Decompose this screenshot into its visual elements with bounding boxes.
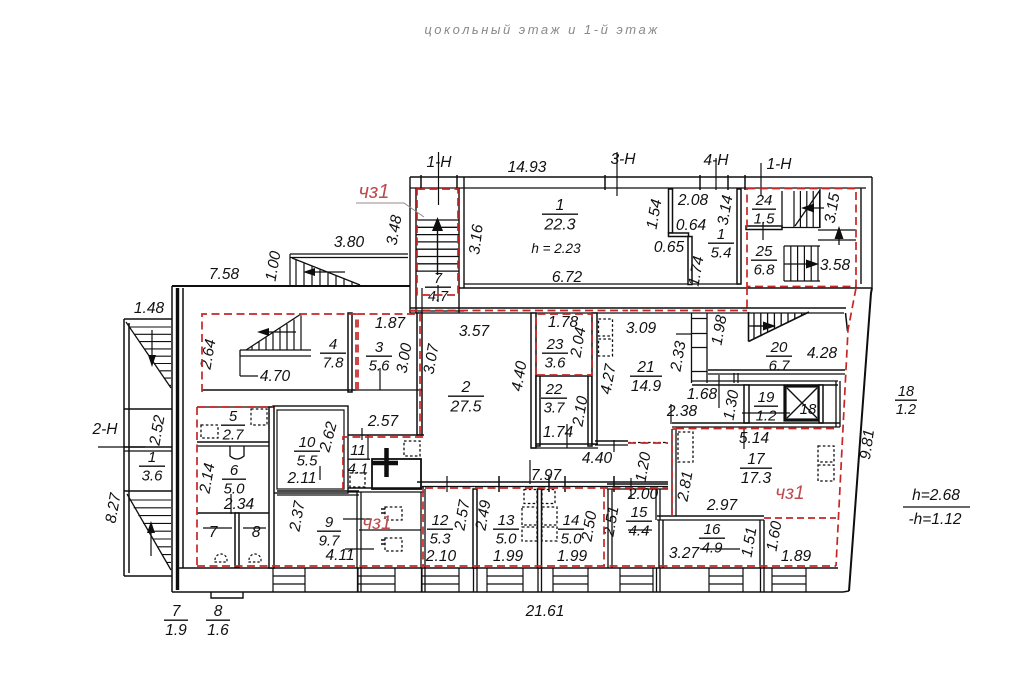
svg-text:2.11: 2.11 (286, 470, 316, 487)
svg-text:14.93: 14.93 (508, 159, 547, 176)
elevator 18 shaft (785, 386, 819, 420)
bottom entry notch (211, 592, 243, 598)
svg-text:4.4: 4.4 (629, 522, 650, 539)
room5 fixture (201, 425, 218, 438)
svg-text:3.57: 3.57 (459, 323, 491, 340)
stair landing line2 (818, 239, 856, 241)
room5/6 divider2 (197, 445, 273, 447)
room20 bottom wall outer (708, 369, 845, 371)
room11 fixture tr (404, 441, 420, 456)
svg-text:9: 9 (325, 514, 334, 531)
svg-text:6.72: 6.72 (552, 269, 583, 286)
svg-text:5.0: 5.0 (496, 530, 518, 547)
top wall outer line (410, 176, 872, 178)
svg-text:1.74: 1.74 (543, 424, 574, 441)
svg-text:6.8: 6.8 (754, 261, 776, 278)
red dash room 23 (536, 314, 592, 375)
svg-text:21: 21 (636, 359, 654, 376)
svg-text:2.34: 2.34 (223, 496, 255, 513)
dim 7.97 tick (529, 460, 531, 484)
lobby bottom wall inner (672, 426, 840, 428)
upper band bottom wall inner (room1) (464, 283, 741, 285)
stairwell lower-left wall tick (421, 288, 423, 313)
svg-text:3.6: 3.6 (545, 354, 567, 371)
notch wall vertical lower (688, 237, 692, 285)
stair room 7/4.7 label (425, 271, 451, 305)
room6 sink (230, 446, 244, 459)
wall 12/13 (473, 489, 477, 568)
axis 4-Н line (715, 158, 717, 190)
main top wall inner (410, 312, 844, 314)
upper band bottom wall outer (459, 287, 872, 289)
red dash rooms 4/3 top (202, 314, 356, 392)
upper band right wall (861, 177, 872, 288)
red dash wall 9/12 (422, 489, 424, 566)
room11 thick cross marks (372, 461, 398, 466)
svg-text:19: 19 (758, 389, 775, 406)
svg-text:4.70: 4.70 (260, 368, 291, 385)
bottom strip bottom line (172, 591, 843, 593)
room17 fixture a (818, 446, 834, 462)
room11 top wall (341, 434, 424, 436)
dim 2.38 tick (670, 404, 672, 424)
svg-text:22.3: 22.3 (543, 216, 575, 233)
room 22 label (541, 381, 567, 416)
stair 24 risers (794, 191, 820, 227)
left wing upper stair arrow (151, 330, 153, 360)
vent shaft a (599, 319, 613, 336)
red dash bottom long line (197, 565, 836, 567)
room 21 label (630, 359, 662, 395)
svg-text:13: 13 (498, 512, 515, 529)
room 25 label (751, 243, 777, 278)
red dash right slant (836, 288, 856, 566)
room20 stair left edge (748, 312, 750, 342)
svg-text:15: 15 (631, 504, 648, 521)
outside 8/1.6 (206, 603, 230, 639)
room9 dim tick b (345, 548, 374, 550)
room16 top wall2 (657, 519, 764, 521)
wall 7.58 (172, 285, 410, 287)
svg-text:6.7: 6.7 (769, 357, 791, 374)
red dash top wall segment (630, 310, 747, 312)
room5 top wall (197, 406, 273, 408)
room9 dim tick a (343, 518, 372, 520)
bottom wall window symbols (273, 568, 806, 592)
lobby wall upper (692, 380, 838, 382)
svg-text:25: 25 (755, 243, 773, 260)
left wing lower stair arrow (150, 528, 152, 556)
axis 2-Н tick (98, 446, 145, 448)
dim 2.57 tick (361, 428, 363, 440)
left wing outer walls (124, 319, 172, 576)
svg-text:2.10: 2.10 (425, 548, 457, 565)
room 17 label (740, 451, 772, 487)
dim 2.00 tick (630, 478, 632, 498)
room 1 basement 3.6 (139, 449, 165, 484)
room24 dim tick (762, 222, 764, 240)
wall 23/21 (592, 313, 597, 444)
wc14 sink a (542, 507, 557, 525)
room8 dim tick (243, 527, 266, 529)
room3 bottom red area wall (356, 389, 422, 391)
wall 7/8 (235, 513, 239, 567)
top wall inner line (410, 187, 866, 189)
dim 4.70 tick (240, 375, 258, 377)
svg-text:4-Н: 4-Н (704, 152, 730, 169)
wc13 sink a (522, 507, 537, 525)
tick 12 (498, 476, 500, 492)
room4/3 bottom wall (202, 389, 356, 391)
svg-text:h=2.68: h=2.68 (912, 487, 960, 504)
svg-text:3.58: 3.58 (820, 257, 851, 274)
stair 24 arrow (806, 207, 824, 209)
svg-text:h = 2.23: h = 2.23 (531, 241, 581, 256)
wall between 5.4 and 24 (737, 189, 741, 284)
bottom strip top line (177, 567, 838, 569)
svg-text:2-Н: 2-Н (92, 421, 119, 438)
svg-text:5.4: 5.4 (711, 244, 732, 261)
svg-text:10: 10 (299, 434, 316, 451)
room 12 label (427, 512, 453, 547)
room 3 label (366, 339, 392, 374)
svg-text:3.09: 3.09 (626, 320, 657, 337)
stair 3.80 risers (296, 260, 352, 285)
svg-text:1: 1 (556, 197, 565, 214)
room15 dim tick (628, 529, 652, 531)
red dash rooms12-15 top (425, 487, 668, 489)
room 5 label (221, 408, 245, 443)
tick 13 (548, 476, 550, 492)
svg-text:18: 18 (898, 384, 914, 400)
room2 right wall (531, 313, 536, 448)
block right wall (269, 407, 274, 568)
room9 top wall (277, 490, 359, 492)
room7 dim tick a (203, 527, 232, 529)
stair 25 rails (784, 246, 820, 281)
shaft wall 21/20 (692, 313, 708, 383)
room16 top wall (657, 515, 764, 517)
svg-text:1.2: 1.2 (896, 402, 916, 418)
room4 right wall (348, 313, 352, 392)
left wing wall b (124, 446, 172, 448)
room 1 area 22.3 (542, 197, 578, 233)
tick 14 (564, 476, 566, 492)
lobby bottom wall (672, 422, 840, 424)
svg-text:1.99: 1.99 (557, 548, 588, 565)
red dash vertical x747 lower (746, 287, 748, 311)
red dash room5 top (197, 406, 273, 408)
stairwell risers (416, 220, 459, 271)
room5/6 divider (197, 441, 273, 443)
room20 stair hypotenuse (749, 312, 810, 342)
outside 7/1.9 (164, 603, 188, 639)
svg-text:3.27: 3.27 (669, 545, 701, 562)
stair 24 diagonal (795, 190, 820, 226)
wc13 sink b (522, 527, 537, 541)
svg-text:чз1: чз1 (775, 483, 804, 504)
svg-text:1.87: 1.87 (375, 315, 407, 332)
svg-text:3.6: 3.6 (142, 467, 164, 484)
svg-text:21.61: 21.61 (525, 603, 565, 620)
svg-text:5.5: 5.5 (297, 452, 319, 469)
room 6 label (222, 462, 246, 497)
axis 1-Н right line (760, 163, 762, 196)
red dash left block (196, 407, 198, 566)
left wing wall d (124, 490, 172, 492)
svg-text:7.8: 7.8 (323, 354, 345, 371)
room17 fixture b (818, 465, 834, 481)
lobby right wall (836, 381, 840, 427)
svg-text:7.58: 7.58 (209, 266, 240, 283)
room 2 label (448, 379, 484, 415)
wall 13/14 (538, 489, 542, 568)
notch wall vertical upper (669, 189, 673, 233)
stair landing line1 (818, 229, 856, 231)
19 dim line (742, 412, 790, 414)
dim 2.33 tick (676, 333, 692, 335)
dim 1.68 tick (718, 375, 720, 408)
svg-text:2.08: 2.08 (677, 192, 709, 209)
red dash stairwell chz1 top (417, 189, 458, 295)
landing up arrow (838, 231, 840, 245)
left wing lower stair (127, 494, 171, 570)
room11 divider (367, 435, 369, 459)
red dash room 17 (672, 429, 676, 516)
main top wall outer (410, 307, 846, 309)
dim 5.14 tick (743, 429, 745, 449)
svg-text:5: 5 (229, 408, 238, 425)
red dash room 21 bottom opening (628, 442, 668, 444)
bottom right corner join (843, 591, 849, 592)
stairwell left wall (410, 177, 416, 313)
svg-text:22: 22 (545, 381, 563, 398)
svg-text:1.89: 1.89 (781, 548, 812, 565)
svg-text:24: 24 (755, 192, 773, 209)
svg-text:7: 7 (434, 271, 443, 287)
wc13 toilet (524, 490, 537, 504)
room 11 label (346, 442, 370, 477)
chz1 underline and leader (356, 203, 424, 217)
room15 top wall (607, 483, 668, 485)
red dash stair 24/25 block (747, 189, 856, 287)
room12 left dim tick (446, 476, 448, 492)
svg-text:14: 14 (563, 512, 580, 529)
svg-text:16: 16 (704, 521, 721, 538)
svg-text:2.7: 2.7 (222, 426, 245, 443)
svg-text:6: 6 (230, 462, 239, 479)
svg-text:4: 4 (329, 336, 337, 353)
room4 stair risers (252, 315, 301, 350)
svg-text:1-Н: 1-Н (427, 154, 453, 171)
room4 stair base (240, 350, 311, 356)
rooms top wall south line (422, 486, 668, 488)
room4 stair diagonal (246, 314, 301, 350)
wc14 sink b (542, 527, 557, 541)
room20 stair arrow (753, 325, 768, 327)
svg-text:7.97: 7.97 (531, 467, 563, 484)
svg-text:4.9: 4.9 (702, 539, 724, 556)
svg-text:1: 1 (148, 449, 156, 466)
room4 stair lower tick (239, 356, 241, 376)
room22 right wall (588, 376, 592, 446)
stair 3.80 diagonal (292, 258, 360, 285)
red dash top wall segment left (410, 310, 628, 312)
room15 right wall (656, 489, 660, 520)
room8 toilet (249, 554, 261, 562)
red dash room11 (343, 437, 424, 490)
room 24 bottom wall (746, 226, 782, 230)
room11 toilet bl (350, 473, 365, 487)
svg-text:17.3: 17.3 (741, 470, 772, 487)
red dash lobby bottom wall (676, 428, 836, 430)
corridor tick (613, 440, 615, 452)
left wing upper stair (126, 322, 171, 388)
svg-text:8: 8 (214, 603, 223, 620)
axis 1-Н line (438, 152, 440, 205)
red dash room 3 (358, 314, 420, 434)
stair24 bottom (782, 227, 820, 229)
tick 15a (613, 476, 615, 492)
wall tick (604, 175, 606, 190)
svg-text:2.57: 2.57 (367, 413, 400, 430)
svg-text:1-Н: 1-Н (767, 156, 793, 173)
room9 top wall2 (277, 494, 359, 496)
right slanted outer wall (849, 288, 872, 591)
room4 stair arrow (262, 331, 296, 333)
svg-text:цокольный этаж и 1-й этаж: цокольный этаж и 1-й этаж (424, 22, 659, 37)
room 1 area 5.4 (708, 226, 734, 261)
svg-text:1.6: 1.6 (207, 622, 229, 639)
room11 inner cabin (372, 459, 421, 489)
left wing wall c (124, 450, 172, 452)
room10 box outer (273, 406, 348, 493)
top wall right jog (846, 313, 848, 331)
svg-text:5.0: 5.0 (224, 480, 246, 497)
stair 25 risers (784, 246, 818, 281)
svg-text:2: 2 (461, 379, 471, 396)
svg-text:7: 7 (172, 603, 182, 620)
room 15 label (626, 504, 652, 539)
wc9 toilet b (385, 538, 402, 551)
svg-text:8: 8 (252, 524, 261, 541)
svg-text:20: 20 (770, 339, 788, 356)
room20 stair risers (754, 313, 802, 338)
room22 bottom wall2 (531, 447, 598, 449)
room5 dashed cab (251, 409, 267, 425)
wall tick (699, 175, 701, 190)
red dash wall 14/15 (603, 489, 605, 566)
room11 left wall (340, 435, 342, 492)
room2 bottom wall (417, 481, 668, 483)
stair 3.80 rails (290, 254, 408, 286)
room3 dim tick (379, 368, 381, 390)
stairwell label tick (437, 285, 439, 302)
wall tick (420, 175, 422, 190)
room 20 label (766, 339, 792, 374)
axis 3-Н line (616, 152, 618, 196)
room 16 label (699, 521, 725, 556)
wc9 toilet a (385, 507, 402, 520)
stairwell up arrow (437, 222, 439, 275)
room 24 label (752, 192, 776, 227)
room22 left wall (536, 376, 540, 446)
red dash room 17 bottom (764, 517, 836, 519)
room10 dim tick (319, 466, 321, 480)
room6 dim tick (230, 494, 232, 514)
room11 bottom wall (341, 487, 424, 489)
stairwell right wall (459, 177, 464, 313)
svg-text:27.5: 27.5 (449, 398, 481, 415)
wall tick (744, 175, 746, 190)
divider stubs through bottom wall (358, 568, 765, 592)
svg-text:1: 1 (717, 226, 725, 243)
stair 25 arrow (784, 263, 812, 265)
wc block walls (357, 489, 425, 568)
room15 left wall (608, 489, 612, 568)
svg-text:3.7: 3.7 (544, 399, 566, 416)
wall 19 left (744, 385, 749, 423)
wall room3 right / room2 left (417, 313, 422, 435)
wc taps (381, 509, 385, 544)
room 14 label (558, 512, 584, 547)
svg-text:0.65: 0.65 (654, 239, 685, 256)
svg-text:1.9: 1.9 (165, 622, 187, 639)
svg-text:5.6: 5.6 (369, 357, 391, 374)
room20 stair landing line (749, 325, 767, 327)
room15 top wall2 (607, 488, 668, 490)
svg-text:7: 7 (209, 524, 219, 541)
outside 18/1.2 (895, 384, 917, 418)
main left wall thick (176, 288, 179, 590)
svg-text:3-Н: 3-Н (611, 151, 637, 168)
vent shaft b (599, 339, 613, 356)
svg-text:18: 18 (800, 401, 817, 418)
room16 dim tick (700, 548, 740, 550)
room22 bottom wall (536, 443, 598, 445)
room17 wardrobe (678, 432, 693, 462)
room 10 label (294, 434, 320, 469)
stairwell lower bottom opening (410, 310, 464, 312)
wall tick (727, 175, 729, 190)
room16 walls (659, 520, 764, 568)
svg-text:-h=1.12: -h=1.12 (908, 511, 961, 528)
svg-text:чз1: чз1 (359, 181, 390, 203)
opening dotted room21 (628, 442, 668, 444)
room22 dim tick (566, 424, 568, 448)
svg-text:1.68: 1.68 (687, 386, 718, 403)
left wing wall a (124, 408, 172, 410)
svg-text:чз1: чз1 (362, 513, 391, 534)
stair24 left wall (781, 191, 783, 228)
lobby wall lower (692, 384, 838, 386)
svg-text:23: 23 (546, 336, 564, 353)
room 9 label (317, 514, 341, 549)
room17 left wall (672, 429, 676, 516)
svg-text:4.28: 4.28 (807, 345, 838, 362)
svg-text:12: 12 (432, 512, 449, 529)
svg-text:1.5: 1.5 (754, 210, 776, 227)
wall elevator right (819, 385, 823, 423)
svg-text:3: 3 (375, 339, 384, 356)
room 19 label (754, 389, 778, 424)
wall tick (456, 175, 458, 190)
room11 bottom wall2 (345, 491, 424, 493)
svg-text:2.97: 2.97 (706, 497, 739, 514)
rooms7-8 top wall (197, 512, 273, 514)
svg-text:11: 11 (350, 442, 366, 459)
svg-text:0.64: 0.64 (676, 217, 707, 234)
